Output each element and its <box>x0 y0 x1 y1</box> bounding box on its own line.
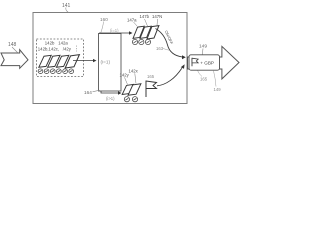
curve flag to output <box>157 68 182 86</box>
leader 167 <box>214 71 217 87</box>
grating plate 142-4 <box>65 55 79 68</box>
wire stack to controller <box>73 60 94 62</box>
wire controller to lower stack <box>101 91 119 93</box>
grating plate 142-1 <box>39 55 51 67</box>
image+GBP box 166 <box>189 55 220 70</box>
svg-text:/42y: /42y <box>63 46 72 51</box>
svg-text:163: 163 <box>156 46 164 51</box>
tiny dashed leader right of row2 <box>75 46 77 52</box>
leader 142x <box>135 73 136 83</box>
svg-text:149: 149 <box>214 87 222 92</box>
svg-text:165: 165 <box>147 74 155 79</box>
outer system box 141 <box>33 13 187 104</box>
upper grating plate 147a <box>133 26 144 38</box>
controller box 160 <box>99 34 122 92</box>
svg-text:147a: 147a <box>127 18 137 23</box>
leader for 148 <box>12 47 18 53</box>
flag glyph inside <box>191 58 193 66</box>
leader 147a <box>134 22 138 26</box>
svg-text:141: 141 <box>62 3 71 9</box>
switch circles under upper stack <box>132 39 150 44</box>
svg-text:147b: 147b <box>140 14 150 19</box>
upper grating plate 147N <box>147 26 159 39</box>
dashed grating-stack box 142 <box>37 39 84 77</box>
lower grating plate 142x <box>128 84 141 96</box>
wire controller to upper stack <box>99 32 130 34</box>
output light arrow 149 <box>188 46 240 79</box>
leader for 141 <box>66 8 69 13</box>
input light arrow 148 <box>1 50 28 69</box>
leader 147b <box>145 19 148 26</box>
svg-text:142b,142c,: 142b,142c, <box>38 46 59 51</box>
ON/OFF s-curve to output <box>156 29 183 57</box>
svg-text:147N: 147N <box>152 14 162 19</box>
svg-text:142b: 142b <box>45 41 55 46</box>
svg-text:(i=1): (i=1) <box>101 59 111 64</box>
grating plate 142-2 <box>48 55 60 67</box>
lower grating plate 142y <box>122 84 133 94</box>
svg-text:(i=1): (i=1) <box>110 28 119 33</box>
upper grating plate 147b <box>140 26 151 38</box>
leader 147N <box>156 19 159 26</box>
leader 142y <box>125 77 128 84</box>
svg-text:160: 160 <box>100 17 108 22</box>
svg-text:(i>1): (i>1) <box>106 96 115 101</box>
switch symbol circles under main stack <box>38 69 73 74</box>
leader 164 <box>93 90 100 92</box>
svg-text:165: 165 <box>200 77 208 82</box>
leader for 160 <box>101 22 104 34</box>
flag marker 165 <box>145 81 147 97</box>
switch circles under lower stack <box>124 97 137 102</box>
grating plate 142-3 <box>56 55 68 67</box>
leader 166 <box>198 71 203 77</box>
leader 149 <box>202 49 203 57</box>
svg-text:164: 164 <box>84 90 92 95</box>
leader 163 <box>163 49 169 51</box>
svg-text:142x: 142x <box>129 69 139 74</box>
svg-text:142a: 142a <box>58 41 68 46</box>
svg-text:+ GBP: + GBP <box>200 60 214 65</box>
